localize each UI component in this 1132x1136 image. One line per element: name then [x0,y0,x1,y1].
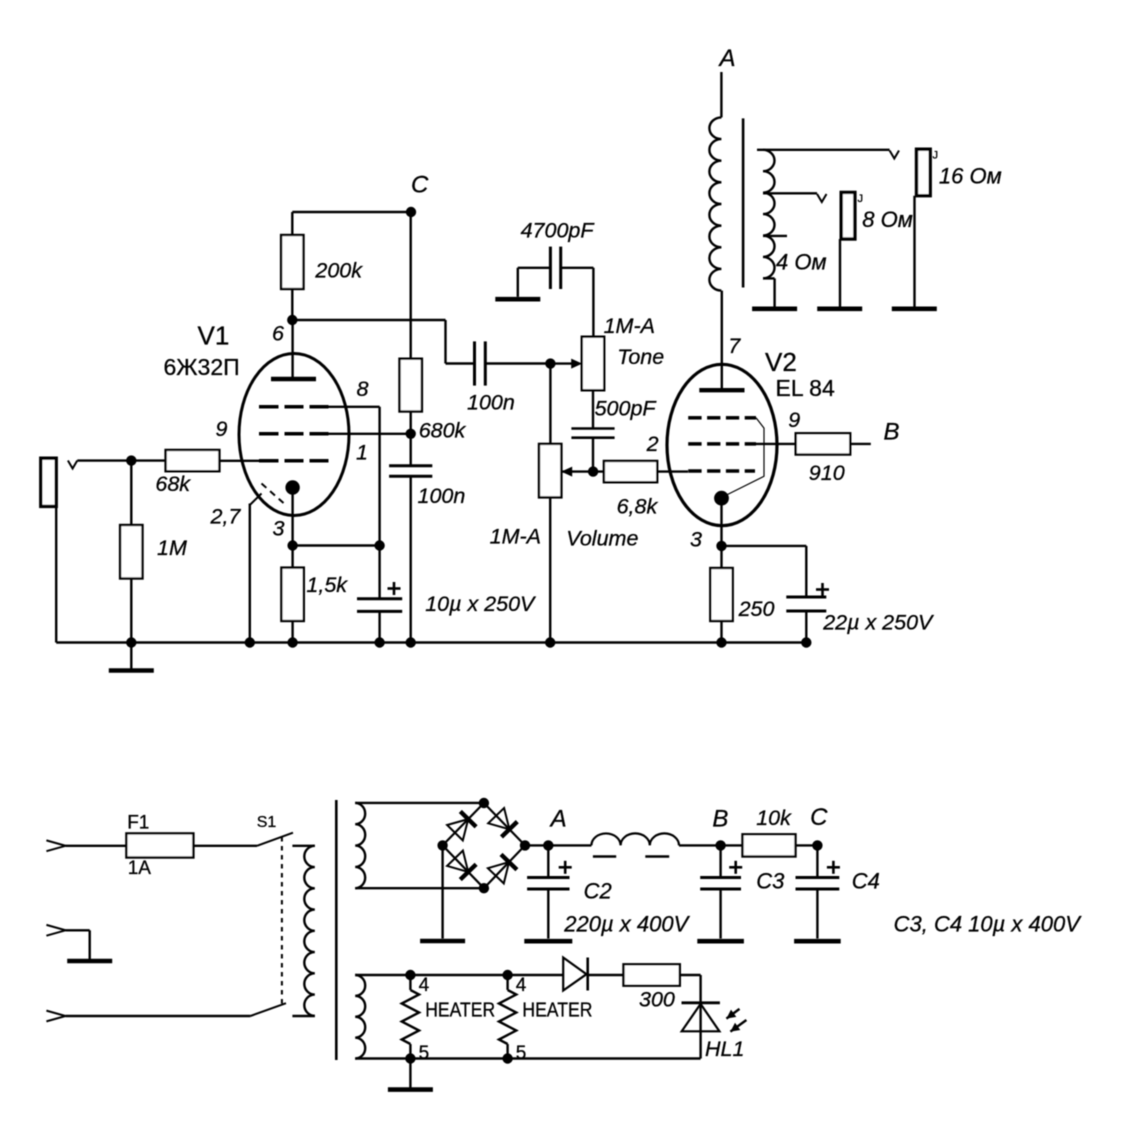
svg-text:J: J [933,150,939,162]
svg-text:4: 4 [419,975,430,996]
svg-text:C: C [411,172,429,199]
svg-text:HEATER: HEATER [522,1000,592,1022]
svg-text:1,5k: 1,5k [306,573,348,597]
svg-text:68k: 68k [155,472,191,496]
svg-text:10µ x 250V: 10µ x 250V [425,592,537,616]
svg-text:C3, C4 10µ x 400V: C3, C4 10µ x 400V [894,912,1083,937]
svg-text:500pF: 500pF [595,396,658,420]
svg-text:3: 3 [273,517,285,541]
svg-text:100n: 100n [467,390,515,414]
svg-text:6: 6 [272,322,284,346]
svg-text:V2: V2 [765,347,797,377]
svg-text:F1: F1 [127,813,149,834]
svg-text:200k: 200k [314,259,363,283]
svg-text:1: 1 [356,441,368,465]
svg-text:220µ x 400V: 220µ x 400V [563,912,690,937]
svg-text:7: 7 [728,334,741,358]
svg-text:B: B [884,419,900,446]
svg-text:Volume: Volume [566,527,638,551]
svg-text:HL1: HL1 [705,1037,744,1061]
svg-text:4 Ом: 4 Ом [776,250,827,275]
svg-text:9: 9 [788,408,800,432]
svg-text:1A: 1A [128,858,152,879]
svg-text:C4: C4 [852,869,880,894]
svg-text:8 Ом: 8 Ом [862,207,913,232]
svg-text:1M: 1M [157,536,187,560]
svg-text:A: A [718,45,736,72]
svg-text:4: 4 [516,975,527,996]
svg-text:16 Ом: 16 Ом [939,163,1002,188]
svg-text:910: 910 [809,461,845,485]
svg-text:250: 250 [738,597,775,621]
svg-text:6Ж32П: 6Ж32П [164,354,240,380]
svg-text:HEATER: HEATER [425,1000,495,1022]
svg-text:C3: C3 [756,869,785,894]
svg-text:680k: 680k [419,418,467,442]
svg-text:A: A [549,805,567,832]
svg-text:Tone: Tone [617,345,664,369]
svg-text:5: 5 [516,1043,527,1064]
svg-text:5: 5 [419,1043,430,1064]
svg-text:2,7: 2,7 [210,505,242,529]
svg-text:B: B [712,805,728,832]
svg-text:EL 84: EL 84 [776,375,835,401]
svg-text:10k: 10k [756,806,792,830]
svg-text:100n: 100n [418,484,466,508]
svg-text:6,8k: 6,8k [617,495,659,519]
svg-text:1M-A: 1M-A [490,525,541,549]
svg-text:C: C [810,804,828,831]
svg-text:V1: V1 [198,321,230,351]
svg-text:3: 3 [690,527,702,551]
svg-text:C2: C2 [584,879,612,904]
svg-text:2: 2 [646,432,659,456]
svg-text:22µ x 250V: 22µ x 250V [822,611,935,635]
svg-text:4700pF: 4700pF [521,219,596,243]
svg-text:300: 300 [639,988,675,1012]
svg-text:J: J [858,193,864,205]
svg-text:9: 9 [216,417,228,441]
svg-text:8: 8 [357,377,369,401]
svg-text:S1: S1 [257,814,277,831]
svg-text:1M-A: 1M-A [604,314,655,338]
